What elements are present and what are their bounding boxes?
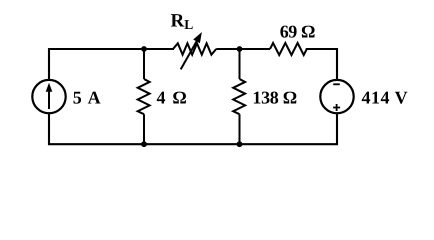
resistor RL wiper arrow bbox=[181, 33, 202, 69]
resistor R 69ohm zigzag bbox=[270, 43, 307, 55]
svg-text:4 Ω: 4 Ω bbox=[157, 88, 189, 108]
junction node top-left bbox=[141, 46, 147, 52]
wire top-left segment bbox=[49, 49, 173, 80]
wire top-right segment bbox=[307, 49, 337, 80]
svg-text:414 V: 414 V bbox=[362, 88, 409, 108]
resistor RL zigzag bbox=[173, 43, 216, 54]
svg-text:138 Ω: 138 Ω bbox=[252, 88, 296, 108]
voltage source plus sign bbox=[333, 104, 340, 111]
svg-text:69 Ω: 69 Ω bbox=[280, 21, 315, 41]
wire top-middle segment bbox=[216, 48, 270, 50]
junction node bottom-left bbox=[141, 141, 147, 147]
junction node bottom-right bbox=[237, 141, 243, 147]
wire bottom-left segment bbox=[49, 113, 144, 144]
wire branch2 top lead bbox=[143, 49, 145, 79]
wire bottom-middle segment bbox=[144, 143, 240, 145]
junction node top-right bbox=[237, 46, 243, 52]
resistor R 4ohm zigzag bbox=[138, 79, 150, 114]
svg-text:5 A: 5 A bbox=[73, 88, 102, 108]
voltage source V1 circle bbox=[320, 80, 353, 113]
current source arrow bbox=[46, 83, 53, 109]
voltage source minus sign bbox=[333, 83, 340, 85]
wire branch3 top lead bbox=[239, 49, 241, 79]
wire right-bottom segment bbox=[240, 113, 338, 144]
current source I1 circle bbox=[32, 80, 65, 113]
wire branch2 bottom lead bbox=[143, 114, 145, 144]
wire branch3 bottom lead bbox=[239, 114, 241, 144]
resistor R 138ohm zigzag bbox=[233, 79, 245, 114]
